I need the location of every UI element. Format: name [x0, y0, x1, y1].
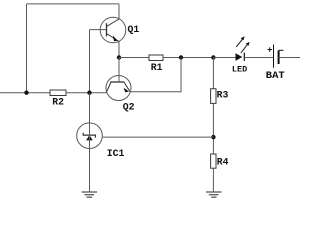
- junction dot R3 top: [211, 55, 215, 59]
- junction dot divider: [211, 135, 215, 139]
- ground under R4: [206, 192, 222, 197]
- LED D1: [232, 36, 250, 74]
- wire left vertical: [26, 4, 28, 93]
- junction dot left: [24, 91, 28, 95]
- transistor Q1: [100, 17, 139, 43]
- wire to R3: [212, 58, 214, 89]
- wire R3 to R4: [212, 103, 214, 154]
- transistor Q2: [106, 76, 135, 113]
- wire R4 to ground: [212, 168, 214, 192]
- zener regulator IC1: [77, 123, 125, 159]
- node junction Q1 emitter: [117, 55, 121, 59]
- svg-text:BAT: BAT: [266, 70, 285, 82]
- wire IC1 reference to divider: [102, 136, 213, 138]
- wire R2 to Q2 collector: [66, 92, 107, 94]
- resistor R3: [211, 89, 229, 104]
- junction dot feedback: [179, 55, 183, 59]
- wire input left: [0, 92, 50, 94]
- wire Q1 base horizontal: [90, 29, 107, 31]
- resistor R1: [149, 55, 163, 73]
- wire Q1 collector up: [118, 4, 120, 19]
- svg-text:R4: R4: [217, 157, 229, 168]
- resistor R4: [211, 154, 229, 168]
- svg-text:R1: R1: [151, 62, 163, 73]
- wire LED to BAT: [244, 57, 273, 59]
- wire IC1 vertical: [89, 93, 91, 192]
- svg-text:R2: R2: [52, 97, 64, 108]
- svg-text:R3: R3: [217, 90, 229, 101]
- ground under IC1: [82, 192, 97, 197]
- svg-text:IC1: IC1: [107, 148, 125, 159]
- wire LED anode: [213, 57, 235, 59]
- wire Q2 base vertical: [118, 58, 120, 83]
- wire to R1: [119, 57, 149, 59]
- resistor R2: [50, 90, 66, 108]
- wire Q1 base vertical: [89, 30, 91, 93]
- wire top rail: [27, 3, 120, 5]
- battery BAT: [266, 45, 285, 82]
- wire R1 to LED: [163, 57, 236, 59]
- svg-text:Q2: Q2: [123, 101, 135, 112]
- junction dot base column: [87, 91, 91, 95]
- wire BAT to edge: [279, 57, 300, 59]
- wire feedback down: [130, 58, 181, 92]
- wire Q1 emitter down: [118, 42, 120, 58]
- svg-text:Q1: Q1: [128, 24, 140, 35]
- svg-text:LED: LED: [232, 65, 247, 75]
